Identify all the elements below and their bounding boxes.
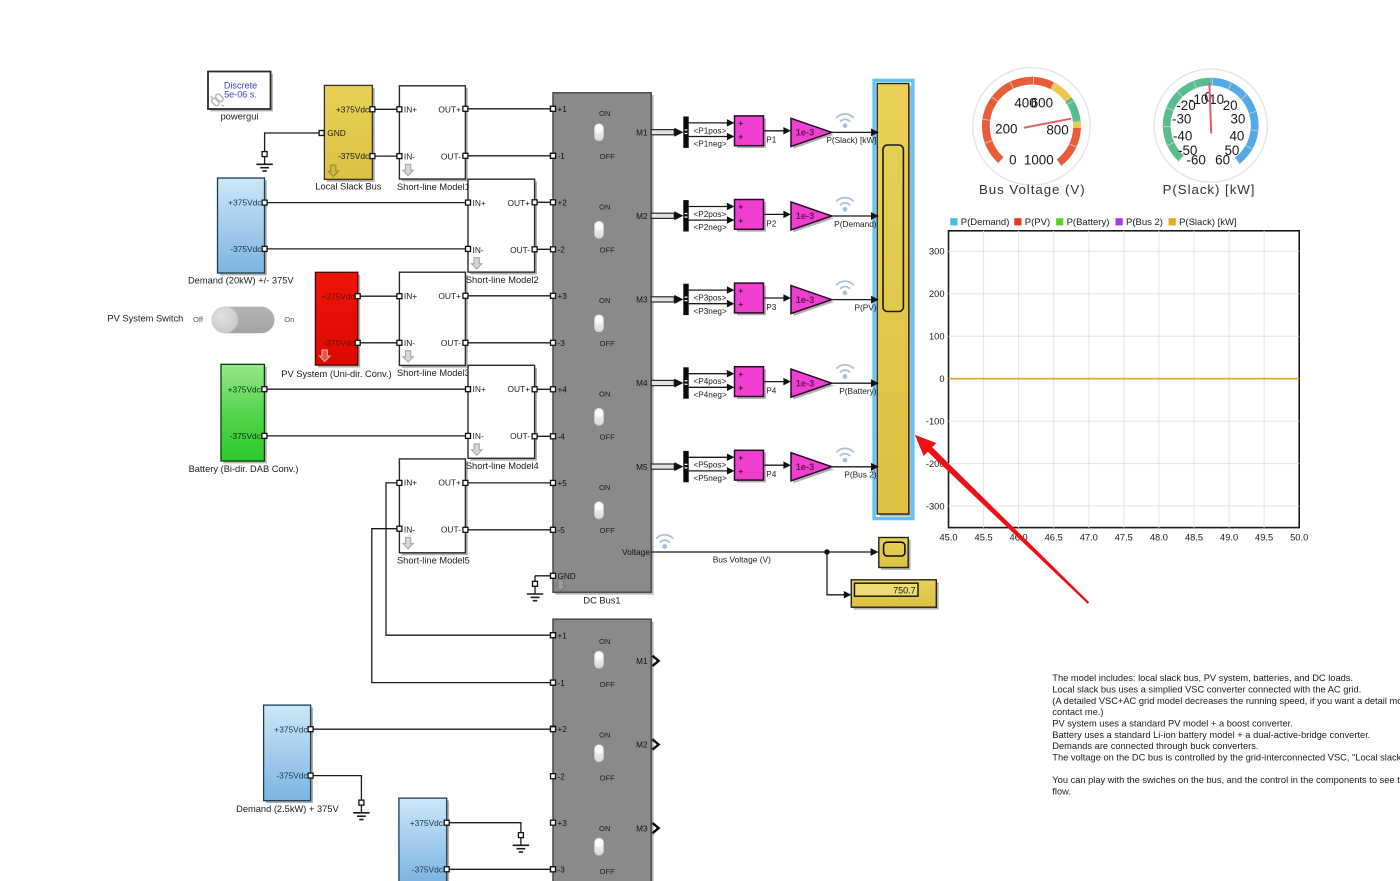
Short-line Model5 variant arrow badge bbox=[403, 537, 413, 549]
svg-text:200: 200 bbox=[995, 122, 1017, 137]
DC Bus1 switch 3 bbox=[594, 296, 615, 348]
svg-text:<P3pos>: <P3pos> bbox=[694, 294, 727, 303]
DC Bus1 M output labels bbox=[622, 128, 650, 557]
wire: selector 5 pos to sum bbox=[689, 454, 735, 462]
svg-text:Short-line Model5: Short-line Model5 bbox=[397, 556, 470, 566]
Short-line Model2 block bbox=[468, 179, 537, 274]
svg-text:+: + bbox=[738, 132, 743, 142]
svg-text:PV System (Uni-dir. Conv.): PV System (Uni-dir. Conv.) bbox=[281, 369, 391, 379]
svg-text:-2: -2 bbox=[558, 772, 566, 781]
svg-text:30: 30 bbox=[1230, 111, 1245, 126]
svg-text:P4: P4 bbox=[766, 470, 776, 479]
svg-text:48.5: 48.5 bbox=[1185, 533, 1203, 543]
svg-text:Demand (2.5kW) + 375V: Demand (2.5kW) + 375V bbox=[236, 804, 339, 814]
measurement row M2: wide signal from DC Bus1 bbox=[651, 211, 683, 220]
DC Bus2 left ports bbox=[551, 633, 556, 872]
wire: selector 3 pos to sum bbox=[689, 286, 735, 294]
gauge: P(Slack) [kW] bbox=[1154, 69, 1267, 197]
svg-text:-30: -30 bbox=[1172, 111, 1191, 126]
svg-text:IN+: IN+ bbox=[404, 291, 417, 301]
svg-text:OUT+: OUT+ bbox=[508, 198, 531, 208]
svg-text:OUT+: OUT+ bbox=[438, 291, 461, 301]
svg-text:<P1pos>: <P1pos> bbox=[694, 126, 727, 135]
svg-text:-1: -1 bbox=[558, 152, 566, 161]
svg-text:+5: +5 bbox=[558, 479, 568, 488]
connection port markers bbox=[262, 106, 556, 872]
svg-text:P(Bus 2): P(Bus 2) bbox=[844, 470, 877, 480]
wire: ground to Local Slack Bus GND bbox=[265, 133, 325, 151]
svg-text:+2: +2 bbox=[558, 725, 568, 734]
wire: sum to gain row 4 bbox=[764, 378, 791, 386]
wire: selector 2 pos to sum bbox=[689, 203, 735, 211]
wire: selector 4 pos to sum bbox=[689, 370, 735, 378]
svg-text:+3: +3 bbox=[558, 292, 568, 301]
wire: DC Bus1 GND to ground bbox=[535, 575, 553, 577]
ground on bottom converter positive rail bbox=[513, 832, 529, 852]
svg-text:OFF: OFF bbox=[600, 432, 616, 441]
svg-text:50.0: 50.0 bbox=[1290, 533, 1308, 543]
svg-text:+375Vdc: +375Vdc bbox=[228, 384, 261, 394]
measurement row M3: wide signal from DC Bus1 bbox=[651, 295, 683, 304]
svg-text:-375Vdc: -375Vdc bbox=[230, 431, 261, 441]
svg-text:IN-: IN- bbox=[404, 338, 415, 348]
svg-text:-100: -100 bbox=[926, 417, 945, 427]
svg-text:OUT-: OUT- bbox=[441, 151, 461, 161]
wire: Battery -375Vdc to Model4 IN- bbox=[264, 435, 468, 437]
svg-text:+1: +1 bbox=[558, 105, 568, 114]
wireless icon row 5 bbox=[837, 448, 853, 455]
svg-text:IN-: IN- bbox=[404, 525, 415, 535]
wire: Model3 OUT+ to DC Bus1 +3 bbox=[465, 295, 553, 297]
Short-line Model3 block bbox=[399, 272, 467, 368]
DC Bus1 switch 4 bbox=[594, 389, 615, 441]
wire: branch to display bbox=[827, 552, 851, 599]
wire: Battery +375Vdc to Model4 IN+ bbox=[264, 388, 468, 390]
Short-line Model5 block bbox=[399, 459, 467, 555]
wire: gain to scope row 2 bbox=[832, 212, 879, 220]
svg-text:(A detailed VSC+AC grid model: (A detailed VSC+AC grid model decreases … bbox=[1052, 696, 1400, 706]
svg-text:IN+: IN+ bbox=[404, 478, 417, 488]
wireless icon on voltage wire bbox=[657, 535, 673, 542]
svg-text:-375Vdc: -375Vdc bbox=[338, 151, 369, 161]
svg-text:40: 40 bbox=[1229, 129, 1244, 144]
svg-text:OFF: OFF bbox=[600, 526, 616, 535]
svg-text:+: + bbox=[738, 383, 743, 393]
svg-text:IN-: IN- bbox=[473, 431, 484, 441]
wire: gain to scope row 3 bbox=[832, 296, 879, 304]
svg-text:OUT-: OUT- bbox=[441, 525, 461, 535]
wire: sum to gain row 2 bbox=[764, 211, 791, 219]
svg-text:powergui: powergui bbox=[220, 110, 258, 121]
wire: Model5 IN+ down to DC Bus2 +1 bbox=[386, 483, 553, 635]
wire: Model5 OUT- to DC Bus1 -5 bbox=[465, 529, 553, 531]
bus selector 3 bbox=[683, 284, 688, 315]
svg-text:OUT-: OUT- bbox=[510, 245, 530, 255]
wireless icon row 2 bbox=[837, 198, 853, 205]
svg-text:Voltage: Voltage bbox=[622, 547, 650, 557]
svg-text:The model includes: local slac: The model includes: local slack bus, PV … bbox=[1052, 673, 1353, 683]
svg-text:1e-3: 1e-3 bbox=[796, 378, 814, 388]
svg-text:Bus Voltage (V): Bus Voltage (V) bbox=[979, 182, 1086, 197]
svg-text:ON: ON bbox=[599, 389, 611, 398]
svg-text:IN-: IN- bbox=[404, 151, 415, 161]
measurement row M4: wide signal from DC Bus1 bbox=[651, 379, 683, 388]
svg-text:M2: M2 bbox=[636, 212, 648, 221]
svg-text:IN+: IN+ bbox=[404, 104, 417, 114]
wire: Model2 OUT+ to DC Bus1 +2 bbox=[535, 201, 553, 203]
svg-text:M2: M2 bbox=[636, 741, 648, 750]
wireless icon row 4 bbox=[837, 365, 853, 372]
svg-text:-4: -4 bbox=[558, 433, 566, 442]
wireless icon row 1 bbox=[837, 114, 853, 121]
svg-text:45.0: 45.0 bbox=[939, 533, 957, 543]
svg-text:0: 0 bbox=[939, 374, 944, 384]
wire: Model4 OUT+ to DC Bus1 +4 bbox=[535, 388, 553, 390]
svg-text:P(Slack) [kW]: P(Slack) [kW] bbox=[826, 135, 876, 145]
svg-text:<P1neg>: <P1neg> bbox=[694, 140, 727, 149]
wire: selector 3 neg to sum bbox=[689, 300, 735, 308]
chart zero-value orange trace P(Slack) bbox=[949, 378, 1300, 380]
Local Slack Bus variant arrow badge bbox=[328, 165, 338, 177]
chart x axis tick labels bbox=[939, 533, 1308, 543]
svg-text:P(Demand): P(Demand) bbox=[834, 219, 877, 229]
svg-text:ON: ON bbox=[599, 109, 611, 118]
svg-text:Short-line Model4: Short-line Model4 bbox=[466, 461, 539, 471]
DC Bus1 left ports bbox=[551, 106, 556, 578]
svg-text:Off: Off bbox=[193, 315, 204, 324]
gain 1e-3 row 1 bbox=[791, 118, 834, 149]
svg-text:+1: +1 bbox=[558, 631, 568, 640]
svg-text:OFF: OFF bbox=[600, 680, 616, 689]
svg-text:OUT-: OUT- bbox=[510, 431, 530, 441]
svg-text:1e-3: 1e-3 bbox=[796, 295, 814, 305]
display block 750.7 bbox=[851, 580, 938, 610]
wire: PV -375Vdc to Model3 IN- bbox=[358, 342, 400, 344]
svg-text:Short-line Model3: Short-line Model3 bbox=[397, 368, 470, 378]
PV System Switch toggle bbox=[193, 307, 294, 334]
wire: DC Bus1 Voltage to small scope bbox=[651, 548, 878, 556]
svg-text:OFF: OFF bbox=[600, 867, 616, 876]
svg-text:+: + bbox=[738, 453, 743, 463]
Short-line Model1 variant arrow badge bbox=[403, 164, 413, 176]
svg-text:+: + bbox=[738, 285, 743, 295]
svg-text:+3: +3 bbox=[558, 819, 568, 828]
bus selector 1 bbox=[683, 117, 688, 148]
wire: sum to gain row 3 bbox=[764, 294, 791, 302]
wire: Local Slack Bus +375Vdc to Short-line Model1 IN+ bbox=[372, 108, 399, 110]
gauge: Bus Voltage (V) bbox=[973, 68, 1090, 197]
svg-text:PV System Switch: PV System Switch bbox=[107, 314, 183, 324]
svg-text:+375Vdc: +375Vdc bbox=[274, 724, 307, 734]
svg-text:You can play with the swiches: You can play with the swiches on the bus… bbox=[1052, 775, 1400, 785]
svg-text:-3: -3 bbox=[558, 339, 566, 348]
powergui chain icon bbox=[211, 93, 225, 107]
svg-text:46.5: 46.5 bbox=[1045, 533, 1063, 543]
svg-text:600: 600 bbox=[1031, 96, 1053, 111]
svg-text:Short-line Model2: Short-line Model2 bbox=[466, 275, 539, 285]
svg-text:<P4neg>: <P4neg> bbox=[694, 390, 727, 399]
wire: gain to scope row 1 bbox=[832, 129, 879, 137]
chart y axis tick labels bbox=[926, 247, 945, 512]
Short-line Model4 block bbox=[468, 365, 537, 460]
svg-text:<P2pos>: <P2pos> bbox=[694, 210, 727, 219]
sum block row 5 bbox=[735, 450, 766, 482]
svg-text:+: + bbox=[738, 299, 743, 309]
svg-text:ON: ON bbox=[599, 296, 611, 305]
svg-text:+375Vdc: +375Vdc bbox=[228, 198, 261, 208]
svg-text:300: 300 bbox=[929, 247, 945, 257]
DC Bus1 GND variant arrow badge bbox=[556, 580, 566, 592]
svg-text:48.0: 48.0 bbox=[1150, 533, 1168, 543]
Local Slack Bus block bbox=[324, 85, 374, 181]
wire: Model1 OUT+ to DC Bus1 +1 bbox=[465, 108, 553, 110]
svg-text:1e-3: 1e-3 bbox=[796, 462, 814, 472]
svg-text:-3: -3 bbox=[558, 866, 566, 875]
svg-text:800: 800 bbox=[1046, 122, 1068, 137]
svg-text:-375Vdc: -375Vdc bbox=[323, 338, 354, 348]
svg-text:GND: GND bbox=[327, 128, 346, 138]
DC Bus1 block bbox=[553, 93, 654, 595]
bus selector 4 bbox=[683, 367, 688, 398]
svg-text:+375Vdc: +375Vdc bbox=[410, 818, 443, 828]
DC Bus2 left port labels bbox=[558, 631, 568, 874]
svg-text:The voltage on the DC bus is c: The voltage on the DC bus is controlled … bbox=[1052, 752, 1400, 762]
svg-text:DC Bus1: DC Bus1 bbox=[583, 596, 620, 606]
svg-text:200: 200 bbox=[929, 289, 945, 299]
svg-text:+: + bbox=[738, 369, 743, 379]
svg-text:On: On bbox=[284, 315, 294, 324]
svg-text:P(Slack) [kW]: P(Slack) [kW] bbox=[1179, 217, 1237, 228]
wireless icon row 3 bbox=[837, 281, 853, 288]
svg-text:-1: -1 bbox=[558, 679, 566, 688]
svg-text:P(Battery): P(Battery) bbox=[839, 386, 877, 396]
wire: Model5 IN- down to DC Bus2 -1 bbox=[372, 529, 553, 683]
svg-text:IN+: IN+ bbox=[473, 198, 486, 208]
wire: Model2 OUT- to DC Bus1 -2 bbox=[535, 248, 553, 250]
wire: Model4 OUT- to DC Bus1 -4 bbox=[535, 435, 553, 437]
svg-text:M3: M3 bbox=[636, 296, 648, 305]
sum block row 3 bbox=[735, 283, 766, 315]
svg-text:47.0: 47.0 bbox=[1080, 533, 1098, 543]
wire: Demand 2.5kW +375Vdc to DC Bus2 +2 bbox=[311, 728, 553, 730]
svg-text:Bus Voltage (V): Bus Voltage (V) bbox=[713, 555, 771, 565]
svg-text:OUT-: OUT- bbox=[441, 338, 461, 348]
wire: Model5 OUT+ to DC Bus1 +5 bbox=[465, 482, 553, 484]
svg-text:+375Vdc: +375Vdc bbox=[336, 104, 369, 114]
Short-line Model4 variant arrow badge bbox=[472, 444, 482, 456]
wire: sum to gain row 1 bbox=[764, 127, 791, 135]
wire: Demand -375Vdc to Model2 IN- bbox=[265, 248, 468, 250]
svg-text:OFF: OFF bbox=[600, 773, 616, 782]
svg-text:M3: M3 bbox=[636, 824, 648, 833]
ground under powergui bbox=[256, 151, 272, 171]
PV System variant arrow badge bbox=[320, 350, 330, 362]
scope chart plot area bbox=[949, 231, 1300, 528]
svg-text:ON: ON bbox=[599, 202, 611, 211]
bottom converter block (cut off) bbox=[399, 798, 449, 881]
svg-text:5e-06 s.: 5e-06 s. bbox=[224, 90, 257, 100]
DC Bus1 switch 1 bbox=[594, 109, 615, 161]
svg-text:1000: 1000 bbox=[1024, 152, 1054, 167]
svg-text:ON: ON bbox=[599, 731, 611, 740]
svg-text:P(Bus 2): P(Bus 2) bbox=[1126, 217, 1163, 228]
svg-text:1e-3: 1e-3 bbox=[796, 128, 814, 138]
wire: bottom converter -375Vdc to DC Bus2 -3 bbox=[447, 868, 553, 870]
wire: sum to gain row 5 bbox=[764, 461, 791, 469]
svg-text:IN-: IN- bbox=[473, 245, 484, 255]
bus selector 5 bbox=[683, 451, 688, 482]
svg-text:P1: P1 bbox=[766, 136, 776, 145]
svg-text:<P4pos>: <P4pos> bbox=[694, 377, 727, 386]
gain 1e-3 row 2 bbox=[791, 202, 834, 233]
sum block row 1 bbox=[735, 116, 766, 148]
DC Bus1 switch 2 bbox=[594, 202, 615, 254]
svg-text:OUT+: OUT+ bbox=[438, 104, 461, 114]
wire: Demand 2.5kW -375Vdc to ground bbox=[311, 776, 362, 800]
svg-text:OUT+: OUT+ bbox=[508, 384, 531, 394]
svg-text:P(PV): P(PV) bbox=[1025, 217, 1050, 228]
Short-line Model3 variant arrow badge bbox=[403, 351, 413, 363]
svg-text:ON: ON bbox=[599, 637, 611, 646]
wire: selector 5 neg to sum bbox=[689, 467, 735, 475]
wire: selector 1 neg to sum bbox=[689, 133, 735, 140]
DC Bus1 left port labels bbox=[558, 105, 576, 581]
DC Bus1 switch 5 bbox=[594, 483, 615, 535]
svg-text:contact me.): contact me.) bbox=[1052, 707, 1103, 717]
svg-text:+: + bbox=[738, 202, 743, 212]
svg-text:-5: -5 bbox=[558, 526, 566, 535]
svg-text:OUT+: OUT+ bbox=[438, 478, 461, 488]
svg-text:ON: ON bbox=[599, 824, 611, 833]
svg-text:OFF: OFF bbox=[600, 152, 616, 161]
svg-text:<P3neg>: <P3neg> bbox=[694, 307, 727, 316]
svg-text:+375Vdc: +375Vdc bbox=[321, 291, 354, 301]
svg-text:M4: M4 bbox=[636, 379, 648, 388]
svg-text:-40: -40 bbox=[1173, 129, 1192, 144]
wire: selector 1 pos to sum bbox=[689, 119, 735, 127]
svg-text:47.5: 47.5 bbox=[1115, 533, 1133, 543]
svg-text:-375Vdc: -375Vdc bbox=[412, 864, 443, 874]
svg-text:P4: P4 bbox=[766, 387, 776, 396]
wire: Model1 OUT- to DC Bus1 -1 bbox=[465, 155, 553, 157]
bus selector 2 bbox=[683, 200, 688, 231]
svg-text:+: + bbox=[738, 118, 743, 128]
svg-text:49.0: 49.0 bbox=[1220, 533, 1238, 543]
sum block row 4 bbox=[735, 367, 766, 399]
scope block P traces (selected, cyan border) bbox=[874, 80, 913, 518]
wire: Demand +375Vdc to Model2 IN+ bbox=[265, 202, 468, 204]
svg-text:+4: +4 bbox=[558, 386, 568, 395]
svg-text:-2: -2 bbox=[558, 246, 566, 255]
svg-text:P(Battery): P(Battery) bbox=[1067, 217, 1110, 228]
gain 1e-3 row 4 bbox=[791, 369, 834, 400]
svg-text:flow.: flow. bbox=[1052, 786, 1071, 796]
wire: Model3 OUT- to DC Bus1 -3 bbox=[465, 342, 553, 344]
measurement row M1: wide signal from DC Bus1 bbox=[651, 128, 683, 137]
svg-text:Demands are connected through: Demands are connected through buck conve… bbox=[1052, 741, 1258, 751]
DC Bus2 switch 3 bbox=[594, 824, 615, 876]
small scope Bus Voltage bbox=[879, 538, 911, 570]
svg-text:-375Vdc: -375Vdc bbox=[276, 771, 307, 781]
powergui block bbox=[208, 72, 273, 112]
svg-text:Battery uses a standard Li-ion: Battery uses a standard Li-ion battery m… bbox=[1052, 730, 1370, 740]
svg-text:IN+: IN+ bbox=[473, 384, 486, 394]
svg-text:P2: P2 bbox=[766, 219, 776, 228]
svg-text:Local slack bus uses a simplie: Local slack bus uses a simplied VSC conv… bbox=[1052, 684, 1361, 694]
svg-text:100: 100 bbox=[929, 332, 945, 342]
model description text bbox=[1052, 673, 1400, 796]
svg-text:-375Vdc: -375Vdc bbox=[230, 244, 261, 254]
wire: selector 2 neg to sum bbox=[689, 216, 735, 224]
svg-text:P(Demand): P(Demand) bbox=[961, 217, 1010, 228]
ground below Demand 2.5kW bbox=[353, 800, 369, 820]
wire: gain to scope row 5 bbox=[832, 463, 879, 471]
DC Bus2 switch 1 bbox=[594, 637, 615, 689]
svg-text:<P5pos>: <P5pos> bbox=[694, 461, 727, 470]
PV System (Uni-dir. Conv.) block bbox=[315, 272, 360, 367]
gain 1e-3 row 5 bbox=[791, 453, 834, 484]
wire: bottom converter +375Vdc to ground bbox=[447, 823, 521, 833]
svg-text:M5: M5 bbox=[636, 463, 648, 472]
svg-text:1e-3: 1e-3 bbox=[796, 211, 814, 221]
measurement row M5: wide signal from DC Bus1 bbox=[651, 462, 683, 471]
svg-text:P3: P3 bbox=[766, 303, 776, 312]
svg-text:Demand (20kW) +/- 375V: Demand (20kW) +/- 375V bbox=[188, 276, 294, 286]
svg-text:+: + bbox=[738, 215, 743, 225]
Short-line Model1 block bbox=[399, 86, 467, 182]
svg-text:Local Slack Bus: Local Slack Bus bbox=[315, 182, 381, 192]
DC Bus2 M output labels and ports bbox=[636, 656, 658, 834]
svg-text:Short-line Model1: Short-line Model1 bbox=[397, 182, 470, 192]
svg-text:<P5neg>: <P5neg> bbox=[694, 474, 727, 483]
svg-text:M1: M1 bbox=[636, 657, 648, 666]
svg-text:OFF: OFF bbox=[600, 339, 616, 348]
svg-text:OFF: OFF bbox=[600, 245, 616, 254]
svg-text:45.5: 45.5 bbox=[975, 533, 993, 543]
chart legend bbox=[950, 217, 1236, 228]
svg-text:0: 0 bbox=[1009, 152, 1016, 167]
wire: gain to scope row 4 bbox=[832, 379, 879, 387]
svg-text:P(PV): P(PV) bbox=[854, 302, 876, 312]
svg-text:49.5: 49.5 bbox=[1255, 533, 1273, 543]
svg-text:750.7: 750.7 bbox=[893, 585, 916, 595]
wire: selector 4 neg to sum bbox=[689, 384, 735, 392]
svg-text:-300: -300 bbox=[926, 501, 945, 511]
svg-text:ON: ON bbox=[599, 483, 611, 492]
red annotation arrow bbox=[915, 435, 1089, 604]
sum block row 2 bbox=[735, 200, 766, 232]
ground at DC Bus1 GND bbox=[527, 576, 543, 601]
wire: PV +375Vdc to Model3 IN+ bbox=[358, 295, 400, 297]
DC Bus2 switch 2 bbox=[594, 731, 615, 783]
Short-line Model2 variant arrow badge bbox=[472, 258, 482, 270]
DC Bus2 block bbox=[553, 619, 654, 881]
scope inner screen outline bbox=[883, 145, 903, 312]
svg-text:+: + bbox=[738, 466, 743, 476]
Battery (Bi-dir. DAB Conv.) block bbox=[221, 364, 267, 463]
svg-text:-60: -60 bbox=[1187, 152, 1206, 167]
svg-text:Battery (Bi-dir. DAB Conv.): Battery (Bi-dir. DAB Conv.) bbox=[189, 464, 299, 474]
gain 1e-3 row 3 bbox=[791, 286, 834, 317]
svg-text:PV system uses a standard PV m: PV system uses a standard PV model + a b… bbox=[1052, 718, 1293, 728]
svg-text:<P2neg>: <P2neg> bbox=[694, 223, 727, 232]
svg-text:60: 60 bbox=[1215, 152, 1230, 167]
svg-text:M1: M1 bbox=[636, 128, 648, 137]
Demand (2.5kW) block bbox=[264, 705, 313, 803]
svg-text:+2: +2 bbox=[558, 199, 568, 208]
svg-text:P(Slack) [kW]: P(Slack) [kW] bbox=[1163, 182, 1256, 197]
wire: Local Slack Bus -375Vdc to Short-line Model1 IN- bbox=[372, 155, 399, 157]
